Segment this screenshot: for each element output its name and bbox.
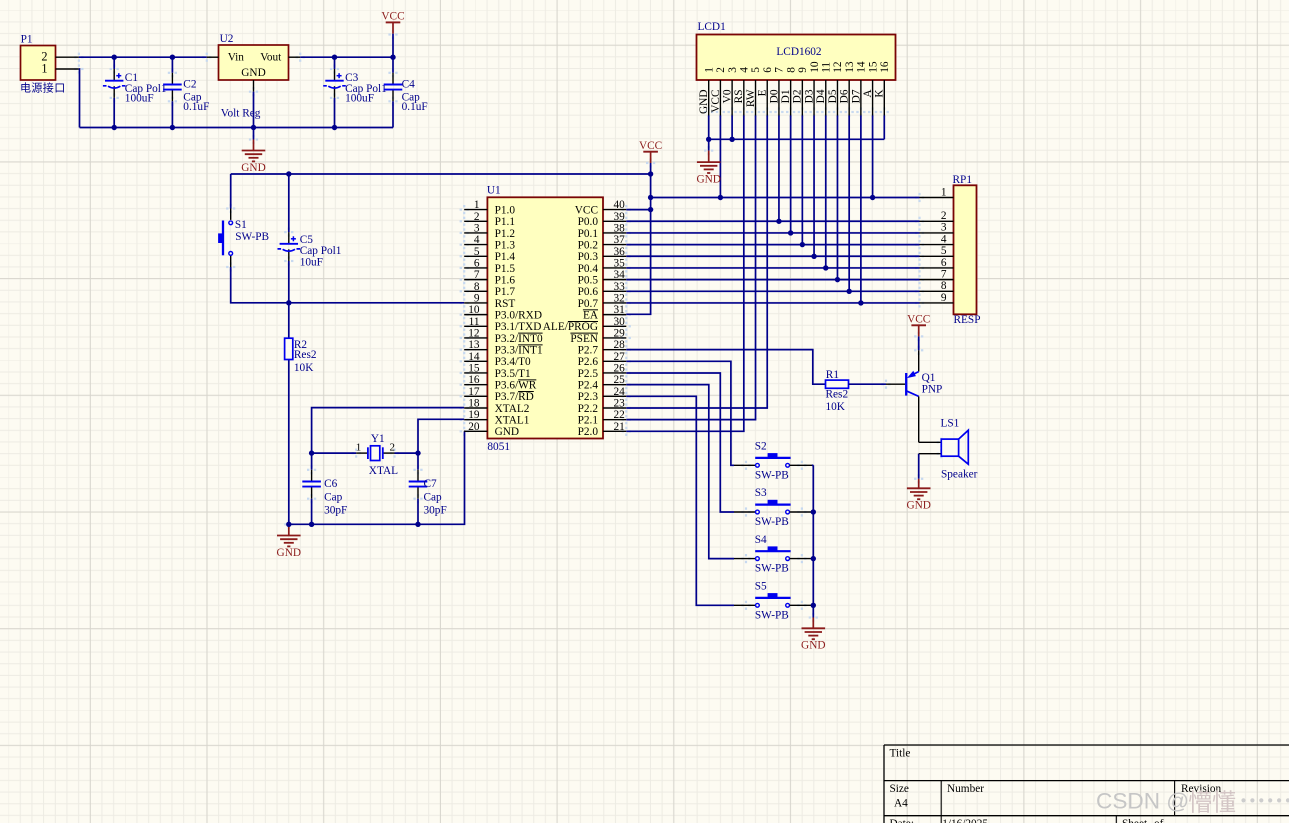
svg-text:14: 14 (468, 351, 480, 363)
svg-text:GND: GND (277, 547, 301, 559)
svg-text:LS1: LS1 (941, 417, 960, 429)
U1 pin 3 P1.2 (464, 222, 515, 239)
svg-text:P0.0: P0.0 (578, 216, 599, 228)
svg-text:S1: S1 (235, 219, 247, 231)
svg-text:Q1: Q1 (922, 372, 936, 384)
U1 pin 33 P0.6 (578, 281, 627, 298)
svg-text:P2.4: P2.4 (578, 380, 599, 392)
svg-text:P2.3: P2.3 (578, 391, 599, 403)
wire Y1 right (383, 452, 418, 454)
svg-text:D2: D2 (792, 89, 804, 103)
svg-text:30pF: 30pF (424, 505, 447, 517)
svg-text:30pF: 30pF (324, 505, 347, 517)
LCD1 pin 16 K (874, 61, 891, 115)
label C7 (424, 478, 447, 517)
switch S4 (755, 534, 791, 575)
svg-text:P0.3: P0.3 (578, 251, 599, 263)
svg-text:LCD1: LCD1 (698, 21, 726, 33)
LCD1 pin 7 D0 (768, 67, 785, 116)
wire VCC rail to RP1 (651, 197, 920, 199)
U1 pin 27 P2.6 (578, 351, 627, 368)
U1 pin 40 VCC (575, 199, 627, 216)
svg-text:P1.2: P1.2 (495, 228, 516, 240)
svg-text:P0.5: P0.5 (578, 275, 599, 287)
capacitor C2 wires (171, 57, 173, 127)
RP1 pin 2 (920, 210, 954, 222)
svg-text:Vin: Vin (228, 51, 245, 63)
svg-text:7: 7 (941, 268, 947, 280)
svg-text:GND: GND (241, 162, 265, 174)
svg-text:P0.4: P0.4 (578, 263, 599, 275)
wire LCD GND net rail (709, 138, 885, 140)
svg-text:9: 9 (941, 292, 947, 304)
resistor R2 wires (288, 303, 290, 525)
wire S1 top (230, 174, 232, 220)
capacitor C3 wires (334, 57, 336, 127)
RP1 pin 3 (920, 222, 954, 234)
svg-text:3: 3 (474, 222, 480, 234)
ground GND2 (277, 536, 301, 559)
svg-text:懵懂: 懵懂 (1188, 790, 1236, 817)
svg-text:GND: GND (906, 500, 930, 512)
svg-text:12: 12 (468, 327, 480, 339)
ground GND3 (696, 162, 720, 185)
U1 pin 38 P0.1 (578, 222, 627, 239)
svg-text:18: 18 (468, 397, 480, 409)
svg-text:RST: RST (495, 298, 516, 310)
wire P2.3 to S5 (626, 396, 755, 605)
U1 pin 10 P3.0 (464, 304, 542, 321)
resistor R1 (826, 380, 849, 388)
svg-text:P1.1: P1.1 (495, 216, 515, 228)
svg-text:VCC: VCC (907, 314, 930, 326)
svg-text:V0: V0 (722, 89, 734, 103)
junction dots data bus (776, 219, 863, 306)
svg-text:Sheet: Sheet (1122, 818, 1148, 823)
svg-text:D1: D1 (780, 90, 792, 104)
junction dots crystal net (286, 450, 421, 527)
capacitor C6 (302, 482, 321, 487)
svg-text:16: 16 (879, 61, 891, 73)
svg-text:P3.2/INT0: P3.2/INT0 (495, 333, 543, 345)
capacitor C5 (278, 236, 301, 251)
RP1 pin 8 (920, 280, 954, 292)
svg-text:13: 13 (844, 61, 856, 73)
LCD1 pin 14 D7 (850, 61, 867, 115)
wire Y1 left (312, 452, 368, 454)
svg-text:100uF: 100uF (345, 93, 374, 105)
power VCC U1 (639, 140, 662, 152)
resistor R2 (285, 338, 293, 359)
svg-text:P3.4/T0: P3.4/T0 (495, 356, 531, 368)
power VCC Q1 (907, 314, 930, 326)
svg-text:VCC: VCC (381, 11, 404, 23)
svg-text:40: 40 (614, 199, 626, 211)
svg-text:GND: GND (241, 67, 265, 79)
U1 pin 32 P0.7 (578, 292, 627, 309)
svg-text:D0: D0 (768, 89, 780, 103)
svg-text:LCD1602: LCD1602 (776, 46, 822, 58)
svg-text:Volt Reg: Volt Reg (221, 107, 261, 119)
svg-text:VCC: VCC (639, 140, 662, 152)
wire S4 right (790, 558, 814, 560)
svg-text:12: 12 (832, 61, 844, 73)
RP1 pin 5 (920, 245, 954, 257)
capacitor C1 (103, 73, 126, 88)
svg-text:2: 2 (390, 441, 396, 453)
svg-text:24: 24 (614, 386, 626, 398)
svg-text:11: 11 (820, 62, 832, 73)
connector P1 (20, 34, 66, 95)
RP1 pin 4 (920, 233, 954, 245)
ground lead xtal (288, 524, 290, 535)
svg-text:9: 9 (474, 292, 480, 304)
junction dots LCD gnd rail (706, 137, 735, 142)
svg-text:34: 34 (614, 269, 626, 281)
wire LCD pin15 A down (872, 116, 874, 198)
wire E to P2.2 (626, 116, 767, 408)
U1 pin 15 P3.5 (464, 362, 530, 379)
svg-text:GND: GND (696, 173, 720, 185)
svg-text:S3: S3 (755, 487, 767, 499)
label C1 (125, 72, 167, 104)
U1 pin 8 P1.7 (464, 281, 515, 298)
switch S5 (755, 581, 791, 622)
svg-text:32: 32 (614, 292, 626, 304)
wire LCD pin16 down (883, 116, 885, 140)
svg-text:8051: 8051 (487, 441, 510, 453)
wire XTAL1 net (418, 419, 464, 481)
svg-text:SW-PB: SW-PB (755, 469, 789, 481)
svg-text:1: 1 (474, 199, 480, 211)
svg-text:ALE/PROG: ALE/PROG (543, 321, 598, 333)
svg-text:SW-PB: SW-PB (755, 516, 789, 528)
svg-text:P1.0: P1.0 (495, 205, 516, 217)
U1 pin 26 P2.5 (578, 362, 627, 379)
svg-text:Number: Number (947, 783, 984, 795)
U1 pin 1 P1.0 (464, 199, 515, 216)
svg-text:29: 29 (614, 327, 626, 339)
LCD1 pin 8 D1 (780, 67, 797, 116)
label R2 (294, 339, 317, 374)
U1 pin 34 P0.5 (578, 269, 627, 286)
switch S1 (218, 219, 269, 255)
title block (884, 745, 1289, 823)
wire VCC vertical to EA (626, 152, 650, 315)
svg-text:2: 2 (715, 67, 727, 73)
U1 pin 37 P0.2 (578, 234, 627, 251)
capacitor C5 wires (288, 174, 290, 303)
label C6 (324, 478, 347, 517)
svg-text:Cap Pol1: Cap Pol1 (300, 245, 342, 257)
capacitor C4 wires (392, 57, 394, 127)
svg-text:1: 1 (356, 441, 362, 453)
svg-text:电源接口: 电源接口 (20, 81, 66, 95)
svg-text:7: 7 (774, 67, 786, 73)
svg-text:SW-PB: SW-PB (755, 563, 789, 575)
ground GND5 (801, 628, 825, 651)
wire S3 right (790, 511, 814, 513)
svg-text:D3: D3 (803, 89, 815, 103)
wire RS to P2.0 (626, 116, 744, 432)
svg-text:Res2: Res2 (294, 349, 317, 361)
wire P2.6 to S2 (626, 361, 755, 465)
svg-text:14: 14 (856, 61, 868, 73)
U1 pin 13 P3.3 (464, 339, 542, 356)
LCD1 pin 11 D4 (815, 62, 832, 116)
label R1 (826, 369, 849, 413)
svg-text:Y1: Y1 (371, 433, 385, 445)
svg-text:30: 30 (614, 316, 626, 328)
svg-text:4: 4 (474, 234, 480, 246)
ground lead LCD (708, 139, 710, 162)
LCD1 pin 15 A (862, 61, 879, 115)
capacitor C7 (409, 482, 428, 487)
junction dots power rails (112, 55, 396, 131)
svg-text:P3.3/INT1: P3.3/INT1 (495, 345, 543, 357)
svg-text:P1.4: P1.4 (495, 251, 516, 263)
U1 pin 18 XTAL2 (464, 397, 530, 414)
wire U1 pin40 to VCC (626, 209, 650, 211)
U1 pin 9 RST (464, 292, 515, 309)
U1 pin 2 P1.1 (464, 211, 515, 228)
svg-text:22: 22 (614, 409, 626, 421)
svg-text:S4: S4 (755, 534, 767, 546)
watermark (1096, 789, 1289, 817)
RP1 pin 1 (920, 186, 954, 198)
svg-text:6: 6 (474, 257, 480, 269)
wire VCC to Q1 emitter (918, 325, 920, 350)
svg-text:P2.1: P2.1 (578, 415, 598, 427)
svg-text:RW: RW (745, 89, 757, 107)
capacitor C2 (163, 85, 182, 90)
U1 pin 22 P2.1 (578, 409, 627, 426)
LCD1 pin 3 V0 (722, 67, 739, 116)
svg-text:CSDN @: CSDN @ (1096, 789, 1189, 814)
svg-text:P0.7: P0.7 (578, 298, 599, 310)
svg-text:2: 2 (474, 211, 480, 223)
svg-text:PSEN: PSEN (570, 333, 598, 345)
svg-text:VCC: VCC (575, 205, 598, 217)
U1 pin 12 P3.2 (464, 327, 543, 344)
svg-text:9: 9 (797, 67, 809, 73)
svg-text:C6: C6 (324, 478, 338, 490)
svg-text:Vout: Vout (260, 51, 282, 63)
wire S5 right (790, 604, 814, 606)
svg-text:VCC: VCC (710, 90, 722, 113)
svg-text:P2.5: P2.5 (578, 368, 599, 380)
wire U2 GND down (253, 92, 255, 128)
svg-text:15: 15 (867, 61, 879, 73)
svg-text:S5: S5 (755, 581, 767, 593)
svg-text:10: 10 (468, 304, 480, 316)
svg-text:10K: 10K (826, 401, 846, 413)
svg-text:EA: EA (583, 310, 599, 322)
LCD1 pin 10 D3 (803, 61, 820, 115)
svg-text:P1.3: P1.3 (495, 240, 516, 252)
svg-text:RP1: RP1 (953, 174, 972, 186)
U1 pin 20 GND (464, 421, 519, 438)
LCD1 pin 9 D2 (792, 67, 809, 116)
svg-text:P3.1/TXD: P3.1/TXD (495, 321, 542, 333)
wires P0.0-P0.7 bus (626, 221, 919, 303)
svg-text:C5: C5 (300, 234, 314, 246)
svg-text:27: 27 (614, 351, 626, 363)
U1 pin 7 P1.6 (464, 269, 515, 286)
wire gnd bottom rail (80, 127, 394, 129)
svg-text:C4: C4 (402, 79, 416, 91)
wire LCD pin3 down (731, 116, 733, 140)
svg-text:P3.0/RXD: P3.0/RXD (495, 310, 542, 322)
svg-text:P1: P1 (21, 34, 33, 46)
LCD1 pin 1 GND (698, 67, 715, 115)
U1 pin 23 P2.2 (578, 397, 627, 414)
wire VCC rail y174 (231, 173, 651, 175)
svg-text:26: 26 (614, 362, 626, 374)
svg-text:PNP: PNP (922, 383, 943, 395)
regulator U2 (219, 33, 289, 119)
svg-text:P1.5: P1.5 (495, 263, 516, 275)
speaker LS1 (919, 417, 978, 480)
wire P2.7 to R1 (626, 350, 825, 385)
svg-text:6: 6 (941, 257, 947, 269)
LCD1 pin 5 RW (745, 67, 762, 116)
P1 pin 2 lead (56, 56, 79, 58)
capacitor C3 (323, 73, 346, 88)
U2 Vout pin (289, 56, 301, 58)
wire VCC down (392, 22, 394, 57)
svg-text:21: 21 (614, 421, 625, 433)
svg-text:E: E (757, 89, 769, 96)
svg-text:P3.6/WR: P3.6/WR (495, 380, 537, 392)
capacitor C6 lower wire (311, 487, 313, 524)
U1 pin 35 P0.4 (578, 257, 627, 274)
wire P1.1 down to gnd rail (78, 69, 81, 128)
ground GND1 (241, 151, 265, 174)
U1 pin 29 PSEN (570, 327, 626, 344)
wire P1.2 to U2 Vin (79, 56, 207, 58)
U1 pin 16 P3.6 (464, 374, 537, 391)
svg-text:36: 36 (614, 246, 626, 258)
transistor Q1 PNP (906, 350, 942, 442)
grid snap marks (74, 30, 946, 622)
svg-text:GND: GND (698, 90, 710, 114)
svg-text:S2: S2 (755, 441, 767, 453)
svg-text:20: 20 (468, 421, 480, 433)
overlines active-low pins (518, 310, 598, 392)
wire LCD pin1 down (708, 116, 710, 140)
U1 pin 11 P3.1 (464, 316, 541, 333)
svg-text:SW-PB: SW-PB (755, 609, 789, 621)
U1 pin 39 P0.0 (578, 211, 627, 228)
RP1 pin 7 (920, 268, 954, 280)
svg-text:31: 31 (614, 304, 625, 316)
wire xtal gnd rail (289, 431, 465, 524)
junction dots reset net (286, 171, 291, 305)
svg-text:P0.6: P0.6 (578, 286, 599, 298)
RP1 pin 9 (920, 292, 954, 304)
U1 pin 31 EA (583, 304, 626, 321)
capacitor C1 wires (113, 57, 115, 127)
wire XTAL2 net (312, 408, 465, 482)
chip U1 8051 (487, 185, 603, 454)
display LCD1 LCD1602 (697, 21, 896, 80)
crystal Y1 (356, 433, 398, 477)
svg-text:P1.7: P1.7 (495, 286, 516, 298)
svg-text:1: 1 (703, 67, 715, 73)
svg-text:Size: Size (890, 783, 909, 795)
svg-text:13: 13 (468, 339, 480, 351)
U1 pin 4 P1.3 (464, 234, 515, 251)
switch S2 (755, 441, 791, 482)
label C5 (300, 234, 342, 269)
junction dots VCC net (648, 171, 875, 212)
U1 pin 17 P3.7 (464, 386, 534, 403)
label C4 (402, 79, 428, 114)
svg-text:P3.5/T1: P3.5/T1 (495, 368, 531, 380)
capacitor C4 (384, 85, 403, 90)
LCD1 pin 2 VCC (710, 67, 727, 116)
power VCC main (381, 11, 404, 23)
svg-text:U1: U1 (487, 185, 501, 197)
svg-text:SW-PB: SW-PB (235, 231, 269, 243)
wire RW to P2.1 (626, 116, 755, 420)
svg-text:P2.0: P2.0 (578, 426, 599, 438)
U1 pin 28 P2.7 (578, 339, 627, 356)
wires LCD D0-D7 down (779, 116, 861, 303)
svg-text:K: K (874, 89, 886, 98)
svg-text:28: 28 (614, 339, 626, 351)
svg-text:3: 3 (727, 67, 739, 73)
junction dots buttons (811, 509, 816, 608)
svg-text:XTAL1: XTAL1 (495, 415, 530, 427)
U1 pin 36 P0.3 (578, 246, 627, 263)
svg-text:100uF: 100uF (125, 93, 154, 105)
svg-text:D7: D7 (850, 89, 862, 103)
svg-text:0.1uF: 0.1uF (402, 101, 428, 113)
svg-text:8: 8 (474, 281, 480, 293)
LCD1 pin 12 D5 (827, 61, 844, 115)
svg-text:15: 15 (468, 362, 480, 374)
svg-text:A: A (862, 89, 874, 98)
wire buttons gnd vertical (812, 465, 814, 617)
svg-text:RESP: RESP (954, 314, 981, 326)
wire S1 bottom to RST (231, 256, 465, 303)
svg-text:17: 17 (468, 386, 480, 398)
svg-text:of: of (1154, 818, 1164, 823)
wire P2.4 to S4 (626, 385, 755, 559)
svg-text:0.1uF: 0.1uF (183, 101, 209, 113)
U1 pin 25 P2.4 (578, 374, 627, 391)
svg-text:Speaker: Speaker (941, 468, 978, 480)
wire P2.5 to S3 (626, 373, 755, 512)
wire R1 to Q1 base (849, 383, 906, 385)
RP1 pin 6 (920, 257, 954, 269)
svg-text:1: 1 (941, 186, 947, 198)
svg-text:P2.7: P2.7 (578, 345, 599, 357)
U1 pin 6 P1.5 (464, 257, 515, 274)
wire LCD pin2 VCC down (719, 116, 721, 198)
svg-text:GND: GND (801, 640, 825, 652)
resistor pack RP1 RESP (953, 174, 981, 326)
ground GND4 (906, 488, 930, 511)
svg-text:5: 5 (474, 246, 480, 258)
U1 pin 14 P3.4 (464, 351, 531, 368)
svg-text:XTAL2: XTAL2 (495, 403, 530, 415)
U1 pin 5 P1.4 (464, 246, 515, 263)
svg-text:8: 8 (785, 67, 797, 73)
wire U2 Vout to VCC (300, 56, 393, 58)
